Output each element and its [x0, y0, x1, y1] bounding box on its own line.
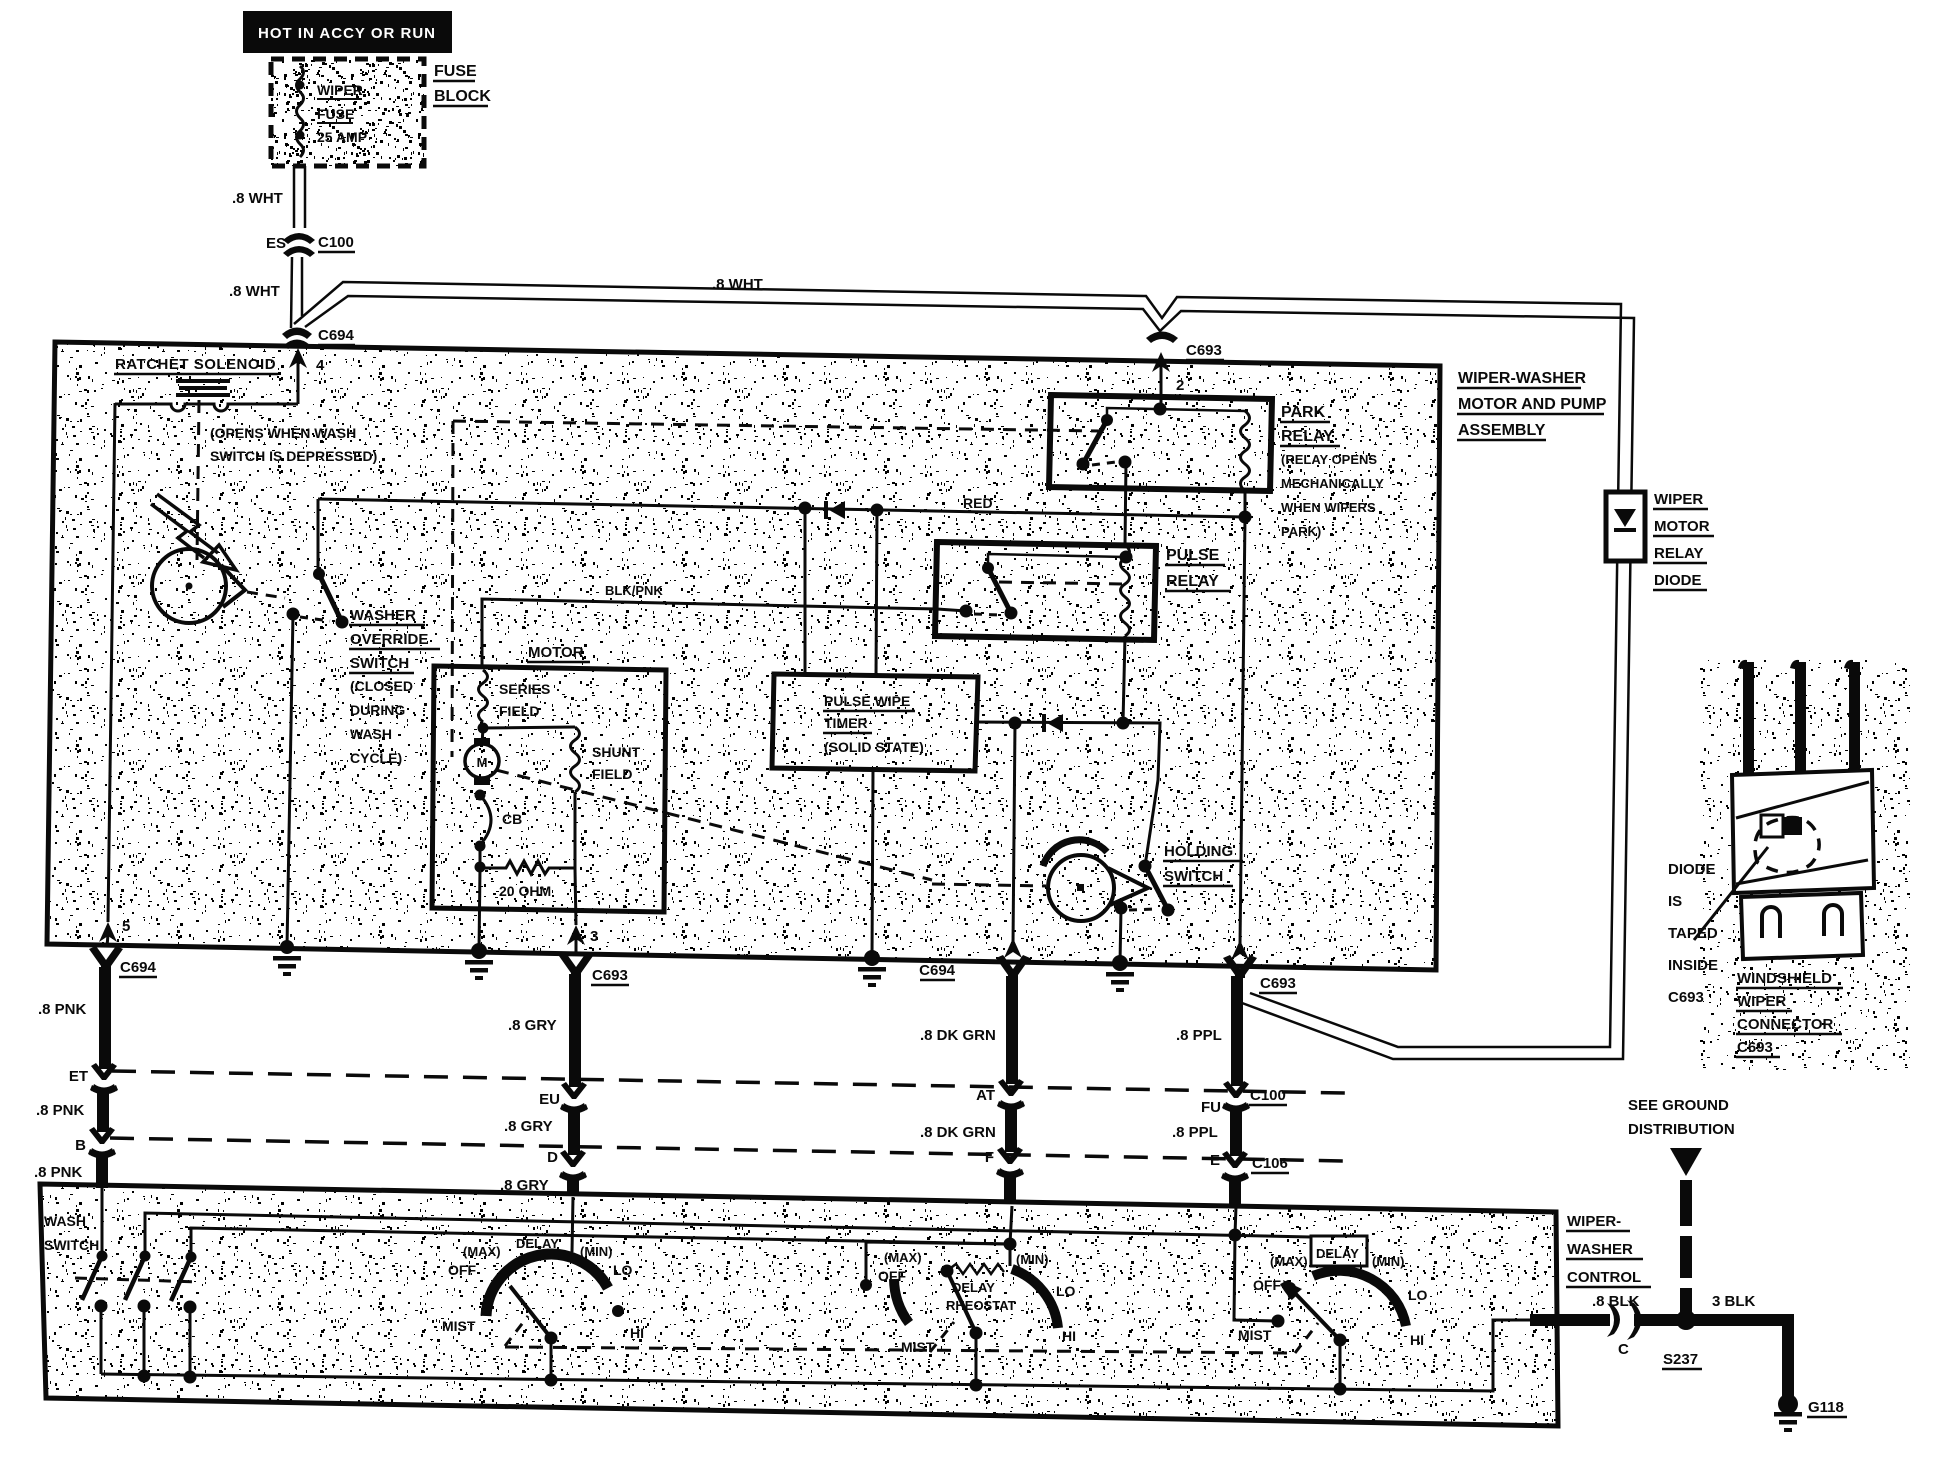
- svg-text:WIPER-: WIPER-: [1567, 1213, 1621, 1230]
- svg-text:MIST: MIST: [1238, 1327, 1272, 1343]
- svg-text:DELAY: DELAY: [1316, 1246, 1359, 1261]
- svg-text:LO: LO: [1408, 1287, 1428, 1303]
- svg-text:PULSE WIPE: PULSE WIPE: [824, 693, 910, 709]
- mechanical dashed link solenoid to washer cam: [197, 400, 199, 560]
- wire RED: [318, 495, 1252, 524]
- svg-text:PARK): PARK): [1281, 524, 1321, 539]
- svg-text:SERIES: SERIES: [499, 681, 550, 697]
- svg-text:FUSE: FUSE: [317, 106, 354, 122]
- svg-text:.8 GRY: .8 GRY: [508, 1017, 557, 1034]
- svg-text:RATCHET SOLENOID: RATCHET SOLENOID: [115, 356, 276, 373]
- svg-text:EU: EU: [539, 1091, 560, 1108]
- wiper-washer control box: [40, 1184, 1651, 1426]
- wire BLK/PNK pulse relay to motor series field: [482, 583, 966, 668]
- svg-text:PARK: PARK: [1281, 404, 1326, 421]
- svg-text:C106: C106: [1252, 1155, 1288, 1172]
- svg-text:3 BLK: 3 BLK: [1712, 1293, 1756, 1310]
- svg-text:HOT IN ACCY OR RUN: HOT IN ACCY OR RUN: [258, 25, 436, 42]
- svg-text:.8 WHT: .8 WHT: [229, 283, 280, 300]
- connector C100 (terminal ES): [266, 233, 355, 257]
- wiper-washer motor and pump assembly box: [47, 342, 1607, 970]
- rotary delay switch 1: [442, 1197, 644, 1387]
- svg-text:CONTROL: CONTROL: [1567, 1269, 1641, 1286]
- svg-text:F: F: [985, 1149, 994, 1166]
- svg-text:WIPER-WASHER: WIPER-WASHER: [1458, 370, 1586, 387]
- svg-text:TIMER: TIMER: [824, 715, 868, 731]
- connector C694 bottom (wire 3): [919, 955, 1030, 980]
- svg-text:SWITCH: SWITCH: [350, 655, 409, 672]
- holding switch: [1043, 840, 1243, 921]
- svg-text:(SOLID STATE): (SOLID STATE): [824, 739, 924, 755]
- pulse relay coil: [1121, 545, 1130, 723]
- svg-text:LO: LO: [1056, 1283, 1076, 1299]
- svg-text:.8 GRY: .8 GRY: [504, 1118, 553, 1135]
- wire .8 DK GRN (wire 3): [920, 976, 1025, 1204]
- wire wash switch 3 to rotary 2 (inner line 2): [191, 1228, 1010, 1257]
- wire pulse timer to ground: [858, 770, 886, 987]
- wash switch: [44, 1186, 200, 1384]
- svg-text:.8 PPL: .8 PPL: [1176, 1027, 1222, 1044]
- wire holding switch to ground: [1106, 908, 1134, 992]
- wire 3 BLK to ground G118: [1774, 1314, 1847, 1432]
- label diode is taped inside C693: [1668, 861, 1718, 1006]
- svg-text:HI: HI: [1410, 1332, 1424, 1348]
- svg-text:CONNECTOR: CONNECTOR: [1737, 1016, 1834, 1033]
- mechanical dashed link motor to holding switch: [452, 421, 1046, 886]
- label windshield wiper connector C693: [1736, 970, 1843, 1057]
- svg-text:25 AMP: 25 AMP: [317, 129, 367, 145]
- wire motor shunt to C693 pin 3: [567, 869, 598, 955]
- svg-text:S237: S237: [1663, 1351, 1698, 1368]
- connector C: [1607, 1300, 1642, 1358]
- wire pulse timer to holding switch: [975, 717, 1160, 867]
- svg-text:B: B: [75, 1137, 86, 1154]
- svg-text:RELAY: RELAY: [1654, 545, 1703, 562]
- svg-text:C693: C693: [1737, 1039, 1773, 1056]
- svg-text:CYCLE): CYCLE): [350, 750, 402, 766]
- svg-text:(MAX): (MAX): [463, 1244, 501, 1259]
- svg-text:C694: C694: [919, 962, 956, 979]
- pulse relay switch: [960, 551, 1133, 620]
- connector C694 (top, pin 4): [282, 327, 355, 349]
- ratchet solenoid: [114, 356, 377, 464]
- svg-text:HI: HI: [630, 1325, 644, 1341]
- svg-text:BLK/PNK: BLK/PNK: [605, 583, 663, 598]
- svg-text:ASSEMBLY: ASSEMBLY: [1458, 422, 1546, 439]
- svg-text:C100: C100: [318, 234, 354, 251]
- svg-text:G118: G118: [1808, 1399, 1844, 1416]
- svg-text:OFF: OFF: [1253, 1277, 1281, 1293]
- wire .8 WHT harness run C694 to C693 to relay diode loop: [294, 276, 1634, 1059]
- svg-text:FUSE: FUSE: [434, 63, 477, 80]
- wire wash switch 2 to rotary 3 (inner line 1): [145, 1213, 1311, 1256]
- washer override switch cam: [152, 549, 285, 623]
- svg-text:5: 5: [122, 918, 130, 935]
- svg-text:(MAX): (MAX): [1270, 1254, 1308, 1269]
- wire holding circuit to C694 (bottom): [1013, 723, 1015, 945]
- svg-text:PULSE: PULSE: [1166, 547, 1220, 564]
- svg-text:.8 PNK: .8 PNK: [36, 1102, 85, 1119]
- svg-text:SEE GROUND: SEE GROUND: [1628, 1097, 1729, 1114]
- wiper motor relay diode: [1606, 491, 1714, 590]
- svg-text:LO: LO: [613, 1262, 633, 1278]
- connector C694 bottom left (wire 1): [89, 946, 157, 977]
- svg-text:(MIN): (MIN): [1372, 1254, 1405, 1269]
- dashed connector boundary C100: [112, 1071, 1345, 1093]
- svg-text:FU: FU: [1201, 1099, 1221, 1116]
- svg-text:WHEN WIPERS: WHEN WIPERS: [1281, 500, 1376, 515]
- svg-text:C694: C694: [318, 327, 355, 344]
- svg-text:DIODE: DIODE: [1654, 572, 1702, 589]
- wire pin4 to ratchet solenoid contacts: [115, 348, 325, 411]
- svg-text:WIPER: WIPER: [317, 82, 363, 98]
- svg-text:(MIN): (MIN): [1016, 1252, 1049, 1267]
- pulse wipe timer box: [772, 674, 978, 771]
- wire ratchet solenoid to C694 pin 5 (left leg): [99, 403, 130, 947]
- svg-text:AT: AT: [976, 1087, 995, 1104]
- svg-text:4: 4: [316, 357, 325, 374]
- svg-text:(MAX): (MAX): [884, 1250, 922, 1265]
- svg-text:INSIDE: INSIDE: [1668, 957, 1718, 974]
- motor series field coil: [478, 670, 551, 734]
- svg-text:RELAY: RELAY: [1281, 428, 1334, 445]
- svg-text:.8 PPL: .8 PPL: [1172, 1124, 1218, 1141]
- svg-text:ES: ES: [266, 235, 286, 252]
- svg-text:C693: C693: [1186, 342, 1222, 359]
- svg-text:WASHER: WASHER: [1567, 1241, 1633, 1258]
- svg-text:M: M: [477, 755, 488, 770]
- mechanical dashed linkage of rotary switches: [505, 1347, 1295, 1353]
- svg-text:(OPENS WHEN WASH: (OPENS WHEN WASH: [210, 425, 356, 441]
- washer override switch actuator (lightning arrow): [151, 494, 236, 570]
- motor 20 OHM resistor: [480, 861, 575, 899]
- svg-text:FIELD: FIELD: [499, 703, 539, 719]
- see ground distribution: [1628, 1097, 1735, 1316]
- svg-text:BLOCK: BLOCK: [434, 88, 491, 105]
- svg-text:MIST: MIST: [442, 1318, 476, 1334]
- park relay coil: [1241, 411, 1250, 517]
- pulse relay box: [935, 542, 1230, 640]
- fuse WIPER FUSE 25 AMP: [296, 66, 368, 157]
- motor armature M: [465, 728, 499, 801]
- rotary delay switch 3: [1229, 1206, 1428, 1396]
- diode (holding switch circuit): [1044, 714, 1063, 732]
- connector C693 bottom right (wire 4): [1223, 955, 1297, 993]
- svg-text:OVERRIDE: OVERRIDE: [350, 631, 428, 648]
- svg-text:WASH: WASH: [350, 726, 392, 742]
- svg-text:.8 DK GRN: .8 DK GRN: [920, 1027, 996, 1044]
- svg-text:WINDSHIELD: WINDSHIELD: [1737, 970, 1832, 987]
- connector C693 bottom (wire 2, from pin 3): [559, 953, 629, 985]
- connector C693 (top, pin 2): [1146, 332, 1224, 411]
- svg-text:ET: ET: [69, 1068, 88, 1085]
- wire .8 WHT C100 to C694: [229, 257, 302, 328]
- power source label HOT IN ACCY OR RUN: [243, 11, 452, 53]
- park relay switch: [1077, 403, 1246, 471]
- wire .8 GRY (wire 2): [500, 974, 588, 1195]
- svg-text:IS: IS: [1668, 893, 1682, 910]
- svg-text:RELAY: RELAY: [1166, 573, 1219, 590]
- svg-text:D: D: [547, 1149, 558, 1166]
- svg-text:C694: C694: [120, 959, 157, 976]
- svg-text:.8 PNK: .8 PNK: [34, 1164, 83, 1181]
- svg-text:C693: C693: [1668, 989, 1704, 1006]
- svg-text:(MIN): (MIN): [580, 1244, 613, 1259]
- motor box: [432, 644, 666, 912]
- motor shunt field: [483, 727, 641, 869]
- svg-text:WIPER: WIPER: [1654, 491, 1703, 508]
- mechanical dashed link to park relay: [453, 421, 1100, 431]
- svg-text:SHUNT: SHUNT: [592, 744, 641, 760]
- wire park relay coil to C693 (bottom): [1231, 517, 1249, 960]
- wire washer override switch to ground: [273, 614, 301, 976]
- diode (red wire to pulse timer): [826, 501, 845, 519]
- dashed connector boundary C106: [110, 1138, 1345, 1161]
- svg-text:HOLDING: HOLDING: [1164, 843, 1233, 860]
- svg-text:MECHANICALLY: MECHANICALLY: [1281, 476, 1384, 491]
- wire .8 WHT fuse block to C100: [232, 166, 305, 228]
- washer override switch: [287, 499, 441, 766]
- svg-text:RED: RED: [963, 495, 993, 511]
- svg-text:MIST: MIST: [901, 1339, 935, 1355]
- svg-text:FIELD: FIELD: [592, 766, 632, 782]
- svg-text:SWITCH IS DEPRESSED): SWITCH IS DEPRESSED): [210, 448, 377, 464]
- svg-text:.8 WHT: .8 WHT: [712, 276, 763, 293]
- svg-text:HI: HI: [1062, 1328, 1076, 1344]
- svg-text:DIODE: DIODE: [1668, 861, 1716, 878]
- svg-text:CB: CB: [502, 811, 522, 827]
- fuse block (dashed box): [271, 59, 491, 166]
- svg-text:TAPED: TAPED: [1668, 925, 1718, 942]
- motor circuit breaker CB: [475, 795, 523, 873]
- svg-text:DURING: DURING: [350, 702, 405, 718]
- wires red wire to pulse timer: [805, 508, 877, 677]
- svg-text:.8 DK GRN: .8 DK GRN: [920, 1124, 996, 1141]
- svg-text:MOTOR: MOTOR: [528, 644, 584, 661]
- splice S237: [1634, 1293, 1788, 1369]
- svg-text:DISTRIBUTION: DISTRIBUTION: [1628, 1121, 1735, 1138]
- svg-text:C693: C693: [1260, 975, 1296, 992]
- svg-text:20 OHM: 20 OHM: [499, 883, 551, 899]
- svg-text:C693: C693: [592, 967, 628, 984]
- windshield wiper connector C693 drawing: [1694, 660, 1910, 1070]
- park relay box: [1049, 395, 1384, 539]
- wire motor armature to ground (bottom border): [465, 868, 493, 980]
- svg-text:WASHER: WASHER: [350, 607, 416, 624]
- svg-text:MOTOR AND PUMP: MOTOR AND PUMP: [1458, 396, 1607, 413]
- svg-text:RHEOSTAT: RHEOSTAT: [946, 1298, 1016, 1313]
- wire .8 BLK control output: [1530, 1293, 1640, 1326]
- svg-text:.8 PNK: .8 PNK: [38, 1001, 87, 1018]
- svg-text:C: C: [1618, 1341, 1629, 1358]
- wire .8 PNK (wire 1): [34, 967, 118, 1188]
- svg-text:C100: C100: [1250, 1087, 1286, 1104]
- svg-text:.8 WHT: .8 WHT: [232, 190, 283, 207]
- svg-text:WIPER: WIPER: [1737, 993, 1786, 1010]
- svg-text:SWITCH: SWITCH: [1164, 868, 1223, 885]
- wire park relay contact to pulse relay coil: [1125, 462, 1126, 545]
- svg-text:E: E: [1210, 1152, 1220, 1169]
- wire .8 PPL (wire 4): [1172, 976, 1289, 1208]
- svg-text:(CLOSED: (CLOSED: [350, 678, 413, 694]
- svg-text:(RELAY OPENS: (RELAY OPENS: [1281, 452, 1377, 467]
- svg-text:3: 3: [590, 928, 598, 945]
- svg-text:OFF: OFF: [448, 1262, 476, 1278]
- svg-text:MOTOR: MOTOR: [1654, 518, 1710, 535]
- rotary delay switch 2 (with delay rheostat): [860, 1206, 1076, 1392]
- svg-text:WASH: WASH: [44, 1213, 86, 1229]
- bus wire wash/rotary commons to output: [101, 1320, 1540, 1391]
- svg-text:SWITCH: SWITCH: [44, 1237, 99, 1253]
